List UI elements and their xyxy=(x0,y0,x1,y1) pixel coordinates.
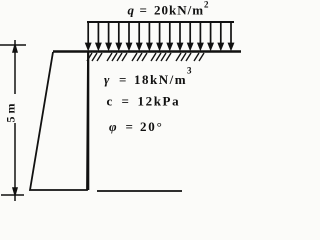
svg-text:5m: 5m xyxy=(3,101,17,123)
soil parameter gamma = 18kN/m3 xyxy=(104,66,192,88)
dimension extension line bottom xyxy=(1,194,24,196)
ground hatch marks xyxy=(87,53,204,61)
dimension extension line top xyxy=(0,44,26,46)
bottom right ground segment xyxy=(97,190,182,192)
svg-text:3: 3 xyxy=(187,66,192,76)
distributed load top line xyxy=(87,21,234,23)
distributed load arrows xyxy=(86,22,233,49)
wall back face xyxy=(87,52,89,190)
svg-text:2: 2 xyxy=(204,0,209,10)
retaining wall outline xyxy=(30,52,88,190)
svg-text:q=20kN/m: q=20kN/m xyxy=(128,3,205,18)
dimension line 5m xyxy=(13,40,17,201)
surcharge label q = 20kN/m2 xyxy=(128,0,210,18)
ground surface line xyxy=(53,50,241,53)
